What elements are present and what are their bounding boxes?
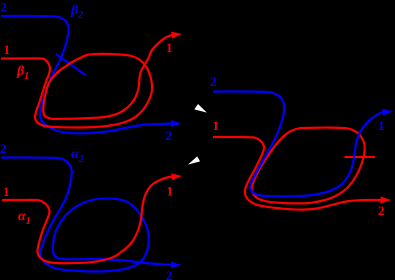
node arrow beta2 exit xyxy=(171,120,182,127)
wire alpha2 blue curve xyxy=(1,157,174,271)
svg-text:1: 1 xyxy=(167,184,174,199)
wire f3 red passing curve xyxy=(213,137,381,210)
svg-text:2: 2 xyxy=(166,128,173,143)
svg-text:2: 2 xyxy=(166,268,173,280)
node white arrowhead lower xyxy=(188,156,200,164)
node arrow alpha2 exit xyxy=(171,262,182,269)
node tick on f3 crossing xyxy=(345,156,376,158)
wire alpha1 red curve xyxy=(2,177,174,264)
node white arrowhead upper xyxy=(194,104,207,113)
node arrow f3 red exit xyxy=(381,197,392,204)
node arrow f3 blue exit xyxy=(382,109,393,116)
wire beta2 blue curve xyxy=(1,16,173,133)
svg-text:1: 1 xyxy=(166,40,173,55)
svg-text:1: 1 xyxy=(378,118,385,133)
svg-text:2: 2 xyxy=(378,203,385,218)
svg-text:2: 2 xyxy=(210,74,217,89)
node arrow beta1 exit xyxy=(171,32,182,39)
node arrow alpha1 exit xyxy=(171,173,182,180)
svg-text:1: 1 xyxy=(3,184,10,199)
wire beta1 red curve xyxy=(1,35,172,127)
node tick on beta crossing xyxy=(56,54,86,76)
wire f3 red oval closed xyxy=(252,128,365,204)
svg-text:1: 1 xyxy=(4,42,11,57)
wire f3 blue curve xyxy=(213,91,385,196)
svg-text:1: 1 xyxy=(213,118,220,133)
svg-text:2: 2 xyxy=(0,141,7,156)
svg-text:2: 2 xyxy=(1,0,8,15)
